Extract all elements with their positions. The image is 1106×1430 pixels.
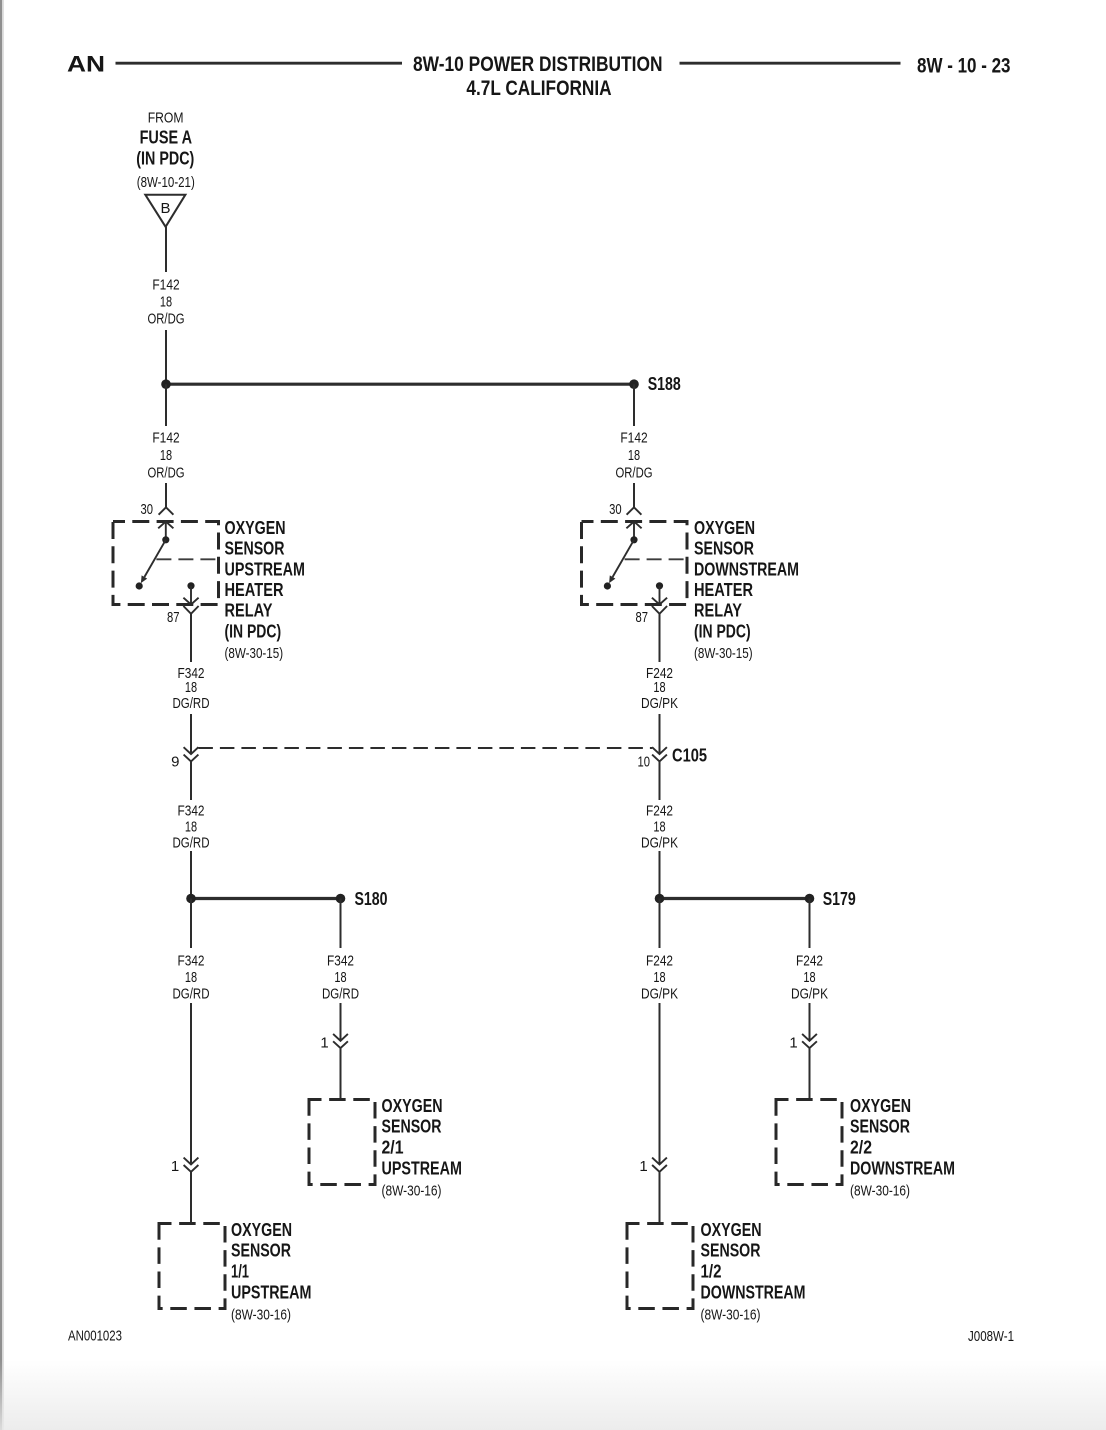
- header rule left: [116, 62, 403, 65]
- svg-text:J008W-1: J008W-1: [968, 1328, 1014, 1345]
- relay U2 oxygen sensor downstream heater relay pin 87 male terminal: [652, 598, 667, 605]
- svg-text:(8W-30-16): (8W-30-16): [701, 1306, 761, 1323]
- svg-text:(8W-30-15): (8W-30-15): [694, 645, 753, 662]
- svg-text:DG/RD: DG/RD: [322, 986, 359, 1003]
- svg-text:1/1: 1/1: [231, 1261, 249, 1281]
- svg-text:87: 87: [167, 609, 180, 626]
- wire label gap to splice S188: [165, 330, 167, 384]
- svg-text:9: 9: [171, 753, 179, 770]
- relay U2 oxygen sensor downstream heater relay switch pivot dot: [630, 536, 637, 543]
- relay U1 oxygen sensor upstream heater relay switch contact dot: [136, 582, 143, 589]
- svg-text:DG/PK: DG/PK: [791, 986, 828, 1003]
- svg-text:FUSE A: FUSE A: [140, 126, 192, 147]
- svg-text:(8W-30-16): (8W-30-16): [850, 1182, 910, 1199]
- svg-text:8W - 10 - 23: 8W - 10 - 23: [917, 54, 1011, 78]
- svg-text:DG/PK: DG/PK: [641, 986, 678, 1003]
- relay U1 oxygen sensor upstream heater relay pin 87 internal dot: [187, 582, 194, 589]
- connector C105 terminals (right): [652, 747, 667, 754]
- svg-text:18: 18: [628, 447, 640, 464]
- svg-text:8W-10 POWER DISTRIBUTION: 8W-10 POWER DISTRIBUTION: [413, 52, 663, 76]
- svg-text:1: 1: [639, 1158, 647, 1175]
- svg-text:DOWNSTREAM: DOWNSTREAM: [694, 559, 799, 579]
- svg-text:18: 18: [185, 819, 197, 836]
- svg-text:30: 30: [141, 501, 154, 518]
- relay U1 oxygen sensor upstream heater relay pin 30 male terminal: [158, 522, 173, 529]
- svg-text:F142: F142: [620, 430, 647, 447]
- svg-text:F242: F242: [646, 953, 673, 970]
- pin 30 female terminal (left): [159, 507, 174, 514]
- wire pin 87 down (right): [659, 614, 661, 662]
- svg-text:18: 18: [160, 294, 172, 311]
- page left edge shading: [0, 0, 2, 1430]
- svg-text:AN001023: AN001023: [68, 1328, 122, 1345]
- relay U1 oxygen sensor upstream heater relay dashed case: [113, 522, 219, 605]
- svg-text:OR/DG: OR/DG: [148, 464, 185, 481]
- svg-text:SENSOR: SENSOR: [850, 1117, 910, 1137]
- wire branch left to connector: [340, 1003, 342, 1041]
- wire splice down (branch left): [340, 899, 342, 949]
- svg-text:DG/RD: DG/RD: [173, 695, 210, 712]
- wire connector to oxygen sensor 1/2: [659, 1172, 661, 1224]
- pin 30 female terminal (right): [627, 507, 642, 514]
- svg-text:4.7L CALIFORNIA: 4.7L CALIFORNIA: [466, 76, 611, 100]
- svg-text:SENSOR: SENSOR: [701, 1241, 761, 1261]
- svg-text:F342: F342: [327, 953, 354, 970]
- svg-text:RELAY: RELAY: [225, 601, 273, 621]
- svg-text:18: 18: [803, 969, 815, 986]
- wire below C105 (right): [659, 762, 661, 801]
- svg-text:SENSOR: SENSOR: [694, 539, 754, 559]
- svg-text:F142: F142: [152, 277, 179, 294]
- svg-text:18: 18: [653, 969, 665, 986]
- svg-text:UPSTREAM: UPSTREAM: [382, 1159, 462, 1179]
- relay U1 oxygen sensor upstream heater relay switch arm: [144, 540, 165, 577]
- wire splice down (main left): [190, 899, 192, 949]
- svg-text:RELAY: RELAY: [694, 601, 742, 621]
- wire to C105 (right): [659, 714, 661, 754]
- svg-text:F242: F242: [796, 953, 823, 970]
- svg-text:DG/PK: DG/PK: [641, 835, 678, 852]
- svg-text:OXYGEN: OXYGEN: [694, 518, 755, 538]
- wire splice down (branch right): [809, 899, 811, 949]
- svg-text:1/2: 1/2: [701, 1261, 722, 1281]
- svg-text:18: 18: [653, 679, 665, 696]
- svg-text:18: 18: [334, 969, 346, 986]
- svg-text:S180: S180: [355, 889, 388, 909]
- wire connector to oxygen sensor 1/1: [190, 1172, 192, 1224]
- relay U2 oxygen sensor downstream heater relay pin 87 internal dot: [656, 582, 663, 589]
- svg-text:OXYGEN: OXYGEN: [701, 1220, 762, 1240]
- connector pin 1 terminals (main right): [652, 1158, 667, 1165]
- svg-text:(8W-30-16): (8W-30-16): [382, 1182, 442, 1199]
- svg-text:OXYGEN: OXYGEN: [850, 1096, 911, 1116]
- wire below C105 (left): [190, 762, 192, 801]
- splice S180 left junction dot: [186, 894, 196, 904]
- svg-text:F342: F342: [178, 803, 205, 820]
- svg-text:30: 30: [609, 501, 622, 518]
- relay U2 oxygen sensor downstream heater relay pin 30 male terminal: [626, 522, 641, 529]
- svg-text:1: 1: [320, 1034, 328, 1051]
- wire fuse B to label gap: [165, 227, 167, 272]
- wire main right long drop: [659, 1003, 661, 1165]
- oxygen sensor 1/2 downstream dashed case: [627, 1224, 693, 1309]
- connector pin 1 terminals (main left): [184, 1158, 199, 1165]
- svg-text:OR/DG: OR/DG: [148, 311, 185, 328]
- wire splice down (main right): [659, 899, 661, 949]
- svg-text:(IN PDC): (IN PDC): [225, 621, 282, 641]
- svg-text:DOWNSTREAM: DOWNSTREAM: [850, 1159, 955, 1179]
- wire to splice (right): [659, 851, 661, 899]
- svg-text:HEATER: HEATER: [694, 580, 753, 600]
- connector pin 1 terminals (branch right): [802, 1034, 817, 1041]
- svg-text:OXYGEN: OXYGEN: [225, 518, 286, 538]
- svg-text:OXYGEN: OXYGEN: [231, 1220, 292, 1240]
- splice S179 bus line: [660, 897, 810, 900]
- connector triangle B (from Fuse A): [145, 195, 185, 227]
- relay U2 oxygen sensor downstream heater relay pin 87 female terminal: [652, 606, 667, 614]
- svg-text:1: 1: [789, 1034, 797, 1051]
- svg-text:AN: AN: [67, 52, 105, 77]
- wire S188 down (left): [165, 384, 167, 426]
- wire to splice (left): [190, 851, 192, 899]
- svg-text:(8W-10-21): (8W-10-21): [137, 174, 195, 191]
- oxygen sensor 2/1 upstream dashed case: [309, 1100, 375, 1185]
- svg-text:DOWNSTREAM: DOWNSTREAM: [701, 1283, 806, 1303]
- svg-text:1: 1: [171, 1158, 179, 1175]
- page bottom shading: [0, 1360, 1106, 1430]
- svg-text:DG/RD: DG/RD: [173, 986, 210, 1003]
- svg-text:2/2: 2/2: [850, 1137, 872, 1157]
- svg-text:F142: F142: [152, 430, 179, 447]
- svg-text:B: B: [160, 200, 170, 217]
- svg-text:HEATER: HEATER: [225, 580, 284, 600]
- splice S179 right junction dot: [805, 894, 815, 904]
- svg-text:F242: F242: [646, 803, 673, 820]
- svg-text:OR/DG: OR/DG: [616, 464, 653, 481]
- wire to relay pin 30 (left): [165, 483, 167, 507]
- wire main left long drop: [190, 1003, 192, 1165]
- wire S188 down (right): [633, 384, 635, 426]
- svg-text:S188: S188: [648, 374, 681, 394]
- svg-text:(8W-30-15): (8W-30-15): [225, 645, 284, 662]
- splice S179 left junction dot: [655, 894, 665, 904]
- svg-text:SENSOR: SENSOR: [225, 539, 285, 559]
- svg-text:2/1: 2/1: [382, 1137, 404, 1157]
- oxygen sensor 2/2 downstream dashed case: [776, 1100, 842, 1185]
- svg-text:(IN PDC): (IN PDC): [694, 621, 751, 641]
- wire to C105 (left): [190, 714, 192, 754]
- wire to relay pin 30 (right): [633, 483, 635, 507]
- svg-text:UPSTREAM: UPSTREAM: [225, 559, 305, 579]
- svg-text:SENSOR: SENSOR: [382, 1117, 442, 1137]
- svg-text:C105: C105: [672, 746, 707, 766]
- splice S180 bus line: [191, 897, 341, 900]
- relay U1 oxygen sensor upstream heater relay switch pivot dot: [162, 536, 169, 543]
- relay U2 oxygen sensor downstream heater relay switch arm: [613, 540, 634, 577]
- relay U2 oxygen sensor downstream heater relay internal boundary dashed line: [625, 558, 685, 560]
- wire connector to oxygen sensor 2/2: [809, 1048, 811, 1099]
- svg-text:(8W-30-16): (8W-30-16): [231, 1306, 291, 1323]
- connector C105 terminals (left): [184, 747, 199, 754]
- svg-text:(IN PDC): (IN PDC): [136, 148, 194, 169]
- oxygen sensor 1/1 upstream dashed case: [159, 1224, 225, 1309]
- header rule right: [680, 62, 901, 65]
- splice S188 bus line: [166, 383, 634, 386]
- relay U2 oxygen sensor downstream heater relay dashed case: [582, 522, 688, 605]
- splice S188 left junction dot: [161, 379, 171, 389]
- splice S188 right junction dot: [629, 379, 639, 389]
- svg-text:18: 18: [185, 969, 197, 986]
- svg-text:FROM: FROM: [148, 110, 184, 127]
- svg-text:OXYGEN: OXYGEN: [382, 1096, 443, 1116]
- svg-text:S179: S179: [823, 889, 856, 909]
- svg-text:SENSOR: SENSOR: [231, 1241, 291, 1261]
- connector C105 dashed tie line: [198, 747, 652, 749]
- wire branch right to connector: [809, 1003, 811, 1041]
- svg-text:F342: F342: [178, 953, 205, 970]
- svg-text:DG/RD: DG/RD: [173, 835, 210, 852]
- connector pin 1 terminals (branch left): [333, 1034, 348, 1041]
- relay U2 oxygen sensor downstream heater relay switch contact dot: [604, 582, 611, 589]
- svg-text:18: 18: [160, 447, 172, 464]
- wire connector to oxygen sensor 2/1: [340, 1048, 342, 1099]
- svg-text:10: 10: [638, 753, 651, 770]
- svg-text:UPSTREAM: UPSTREAM: [231, 1283, 311, 1303]
- svg-text:18: 18: [185, 679, 197, 696]
- relay U1 oxygen sensor upstream heater relay pin 87 male terminal: [183, 598, 198, 605]
- relay U1 oxygen sensor upstream heater relay internal boundary dashed line: [156, 558, 216, 560]
- svg-text:DG/PK: DG/PK: [641, 695, 678, 712]
- wire pin 87 down (left): [190, 614, 192, 662]
- svg-text:18: 18: [653, 819, 665, 836]
- relay U1 oxygen sensor upstream heater relay pin 87 female terminal: [183, 606, 198, 614]
- svg-text:87: 87: [636, 609, 649, 626]
- splice S180 right junction dot: [336, 894, 346, 904]
